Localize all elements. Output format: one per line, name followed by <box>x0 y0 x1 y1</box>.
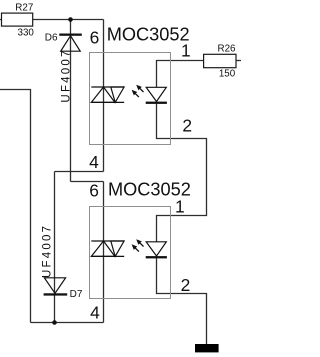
svg-text:R27: R27 <box>15 2 33 13</box>
svg-text:6: 6 <box>89 181 99 201</box>
svg-text:150: 150 <box>219 68 236 79</box>
svg-text:330: 330 <box>18 28 35 39</box>
svg-text:2: 2 <box>182 116 192 136</box>
svg-text:UF4007: UF4007 <box>61 48 73 102</box>
svg-text:6: 6 <box>90 27 100 47</box>
svg-text:D6: D6 <box>45 33 58 44</box>
svg-text:4: 4 <box>89 152 99 172</box>
svg-text:MOC3052: MOC3052 <box>107 24 190 44</box>
svg-text:D7: D7 <box>70 289 83 300</box>
svg-text:R26: R26 <box>218 44 237 55</box>
svg-text:4: 4 <box>90 302 100 322</box>
svg-text:2: 2 <box>181 275 191 295</box>
svg-text:1: 1 <box>181 41 191 61</box>
svg-text:1: 1 <box>175 197 185 217</box>
svg-text:UF4007: UF4007 <box>41 224 53 278</box>
